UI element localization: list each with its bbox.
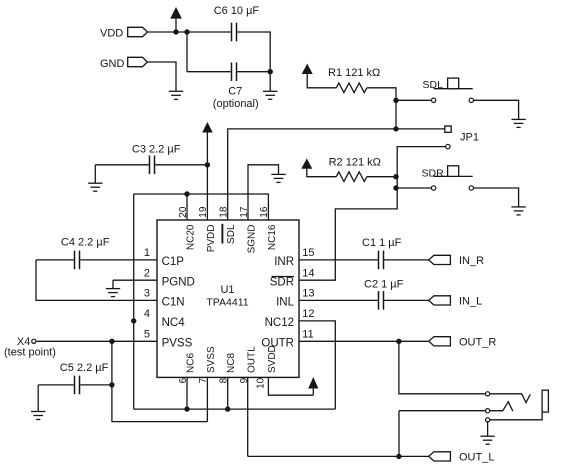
svg-text:SVDD: SVDD	[267, 345, 278, 373]
svg-text:NC6: NC6	[185, 353, 196, 373]
svg-text:PGND: PGND	[162, 276, 195, 288]
svg-text:(test point): (test point)	[4, 347, 56, 359]
svg-text:JP1: JP1	[460, 132, 479, 144]
svg-text:INL: INL	[276, 297, 295, 309]
svg-text:INR: INR	[274, 256, 294, 268]
svg-text:R1 121 kΩ: R1 121 kΩ	[328, 67, 380, 79]
svg-text:U1: U1	[220, 284, 234, 296]
svg-text:16: 16	[259, 206, 270, 218]
svg-text:20: 20	[178, 206, 189, 218]
svg-text:3: 3	[144, 288, 150, 300]
svg-text:7: 7	[198, 377, 209, 383]
svg-text:9: 9	[239, 377, 250, 383]
svg-text:C7: C7	[228, 86, 242, 98]
svg-text:IN_L: IN_L	[459, 295, 482, 307]
svg-text:C2 1 µF: C2 1 µF	[364, 278, 404, 290]
svg-text:C1 1 µF: C1 1 µF	[362, 237, 402, 249]
svg-text:GND: GND	[100, 58, 125, 70]
svg-text:NC12: NC12	[265, 317, 294, 329]
svg-text:12: 12	[302, 308, 314, 320]
svg-text:14: 14	[302, 267, 314, 279]
svg-text:R2 121 kΩ: R2 121 kΩ	[329, 157, 381, 169]
svg-text:2: 2	[144, 267, 150, 279]
svg-text:15: 15	[302, 247, 314, 259]
svg-text:TPA4411: TPA4411	[206, 296, 248, 308]
svg-text:SDR: SDR	[270, 276, 294, 288]
svg-text:SDL: SDL	[423, 79, 444, 91]
svg-text:SDR: SDR	[422, 167, 445, 179]
svg-text:OUT_R: OUT_R	[459, 336, 496, 348]
svg-text:SDL: SDL	[226, 224, 237, 244]
svg-text:C6 10 µF: C6 10 µF	[214, 5, 260, 17]
svg-text:VDD: VDD	[100, 28, 123, 40]
svg-text:NC16: NC16	[267, 224, 278, 250]
svg-text:NC4: NC4	[162, 317, 186, 329]
svg-text:19: 19	[198, 206, 209, 218]
svg-text:1: 1	[144, 247, 150, 259]
svg-text:17: 17	[239, 206, 250, 218]
svg-text:13: 13	[302, 288, 314, 300]
svg-text:18: 18	[219, 206, 230, 218]
svg-text:6: 6	[178, 377, 189, 383]
svg-text:C1P: C1P	[162, 256, 185, 268]
svg-text:IN_R: IN_R	[459, 255, 484, 267]
svg-text:C1N: C1N	[162, 297, 185, 309]
svg-text:4: 4	[144, 308, 150, 320]
svg-text:5: 5	[144, 329, 150, 341]
svg-text:SGND: SGND	[246, 225, 257, 254]
svg-text:(optional): (optional)	[213, 98, 259, 110]
svg-text:NC20: NC20	[185, 224, 196, 250]
svg-text:PVSS: PVSS	[162, 338, 193, 350]
svg-text:OUT_L: OUT_L	[459, 452, 494, 464]
svg-text:C3 2.2 µF: C3 2.2 µF	[132, 144, 181, 156]
svg-text:C4 2.2 µF: C4 2.2 µF	[61, 236, 110, 248]
svg-text:OUTL: OUTL	[246, 346, 257, 373]
svg-text:C5 2.2 µF: C5 2.2 µF	[60, 362, 109, 374]
svg-text:8: 8	[219, 377, 230, 383]
svg-text:11: 11	[302, 329, 313, 341]
svg-text:NC8: NC8	[226, 353, 237, 373]
svg-text:PVDD: PVDD	[206, 225, 217, 253]
svg-text:10: 10	[255, 377, 266, 389]
svg-text:SVSS: SVSS	[206, 346, 217, 373]
